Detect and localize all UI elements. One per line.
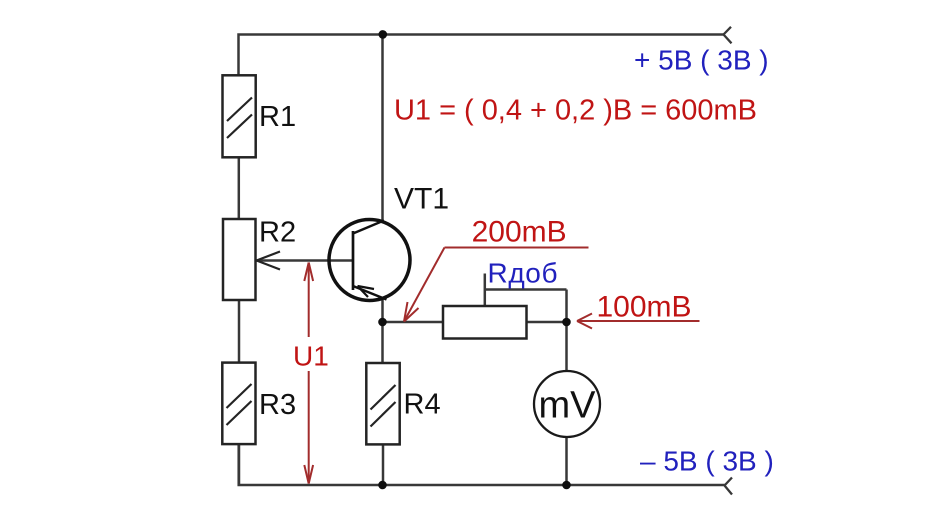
wire node to R4 top <box>381 322 384 364</box>
200mV underline <box>445 247 589 249</box>
transistor VT1 <box>329 220 410 301</box>
resistor R2 (potentiometer) <box>223 219 256 300</box>
svg-text:200mВ: 200mВ <box>472 216 567 249</box>
wire base horizontal <box>257 259 354 262</box>
svg-text:R4: R4 <box>404 389 441 421</box>
node emitter junction <box>378 318 387 327</box>
resistor R3 <box>222 363 255 445</box>
resistor R4 <box>366 363 399 444</box>
red annotation lines <box>304 248 699 484</box>
svg-text:U1 = ( 0,4 + 0,2 )В = 600mВ: U1 = ( 0,4 + 0,2 )В = 600mВ <box>394 95 757 127</box>
svg-text:VT1: VT1 <box>394 183 449 216</box>
wire bottom rail -5V <box>239 444 725 485</box>
wire Rdob tap horizontal <box>485 288 567 291</box>
svg-text:R1: R1 <box>259 101 296 133</box>
svg-text:R3: R3 <box>259 389 296 421</box>
wire emitter vertical <box>381 299 384 323</box>
wire Rdob right to node <box>527 321 567 324</box>
svg-text:R2: R2 <box>259 217 296 249</box>
wire R3 to bottom rail <box>238 444 241 484</box>
terminal -5V chevron <box>725 478 733 495</box>
wire collector vertical <box>381 35 384 222</box>
node meter bottom junction <box>562 481 571 490</box>
wire R1 to R2 <box>238 157 241 219</box>
200mV leader arrow <box>404 248 445 322</box>
100mV arrow line <box>577 320 700 322</box>
svg-text:U1: U1 <box>293 341 329 372</box>
U1 measure arrow <box>308 263 310 338</box>
svg-text:mV: mV <box>539 385 597 427</box>
svg-text:– 5В ( 3В ): – 5В ( 3В ) <box>640 446 774 477</box>
wire mV meter to bottom rail <box>565 437 568 485</box>
wire node to Rdob left <box>383 321 444 324</box>
resistor Rdob <box>443 306 527 339</box>
wire Rdob tap down to node <box>565 290 568 323</box>
node R4 bottom junction <box>378 481 387 490</box>
node 100mV junction <box>562 318 571 327</box>
svg-text:Rдоб: Rдоб <box>488 258 558 289</box>
svg-text:+ 5В ( 3В ): + 5В ( 3В ) <box>634 45 769 76</box>
node top rail junction <box>379 30 388 39</box>
voltmeter mV <box>534 371 600 437</box>
resistor R1 <box>223 75 256 157</box>
wire R2 to R3 <box>238 300 241 363</box>
svg-text:100mВ: 100mВ <box>597 291 692 324</box>
wire top rail +5V <box>239 35 725 76</box>
terminal +5V chevron <box>724 27 732 44</box>
wire Rdob tap up <box>484 274 487 307</box>
wire R4 bottom to rail <box>382 444 385 485</box>
wire node to mV meter <box>565 322 568 371</box>
